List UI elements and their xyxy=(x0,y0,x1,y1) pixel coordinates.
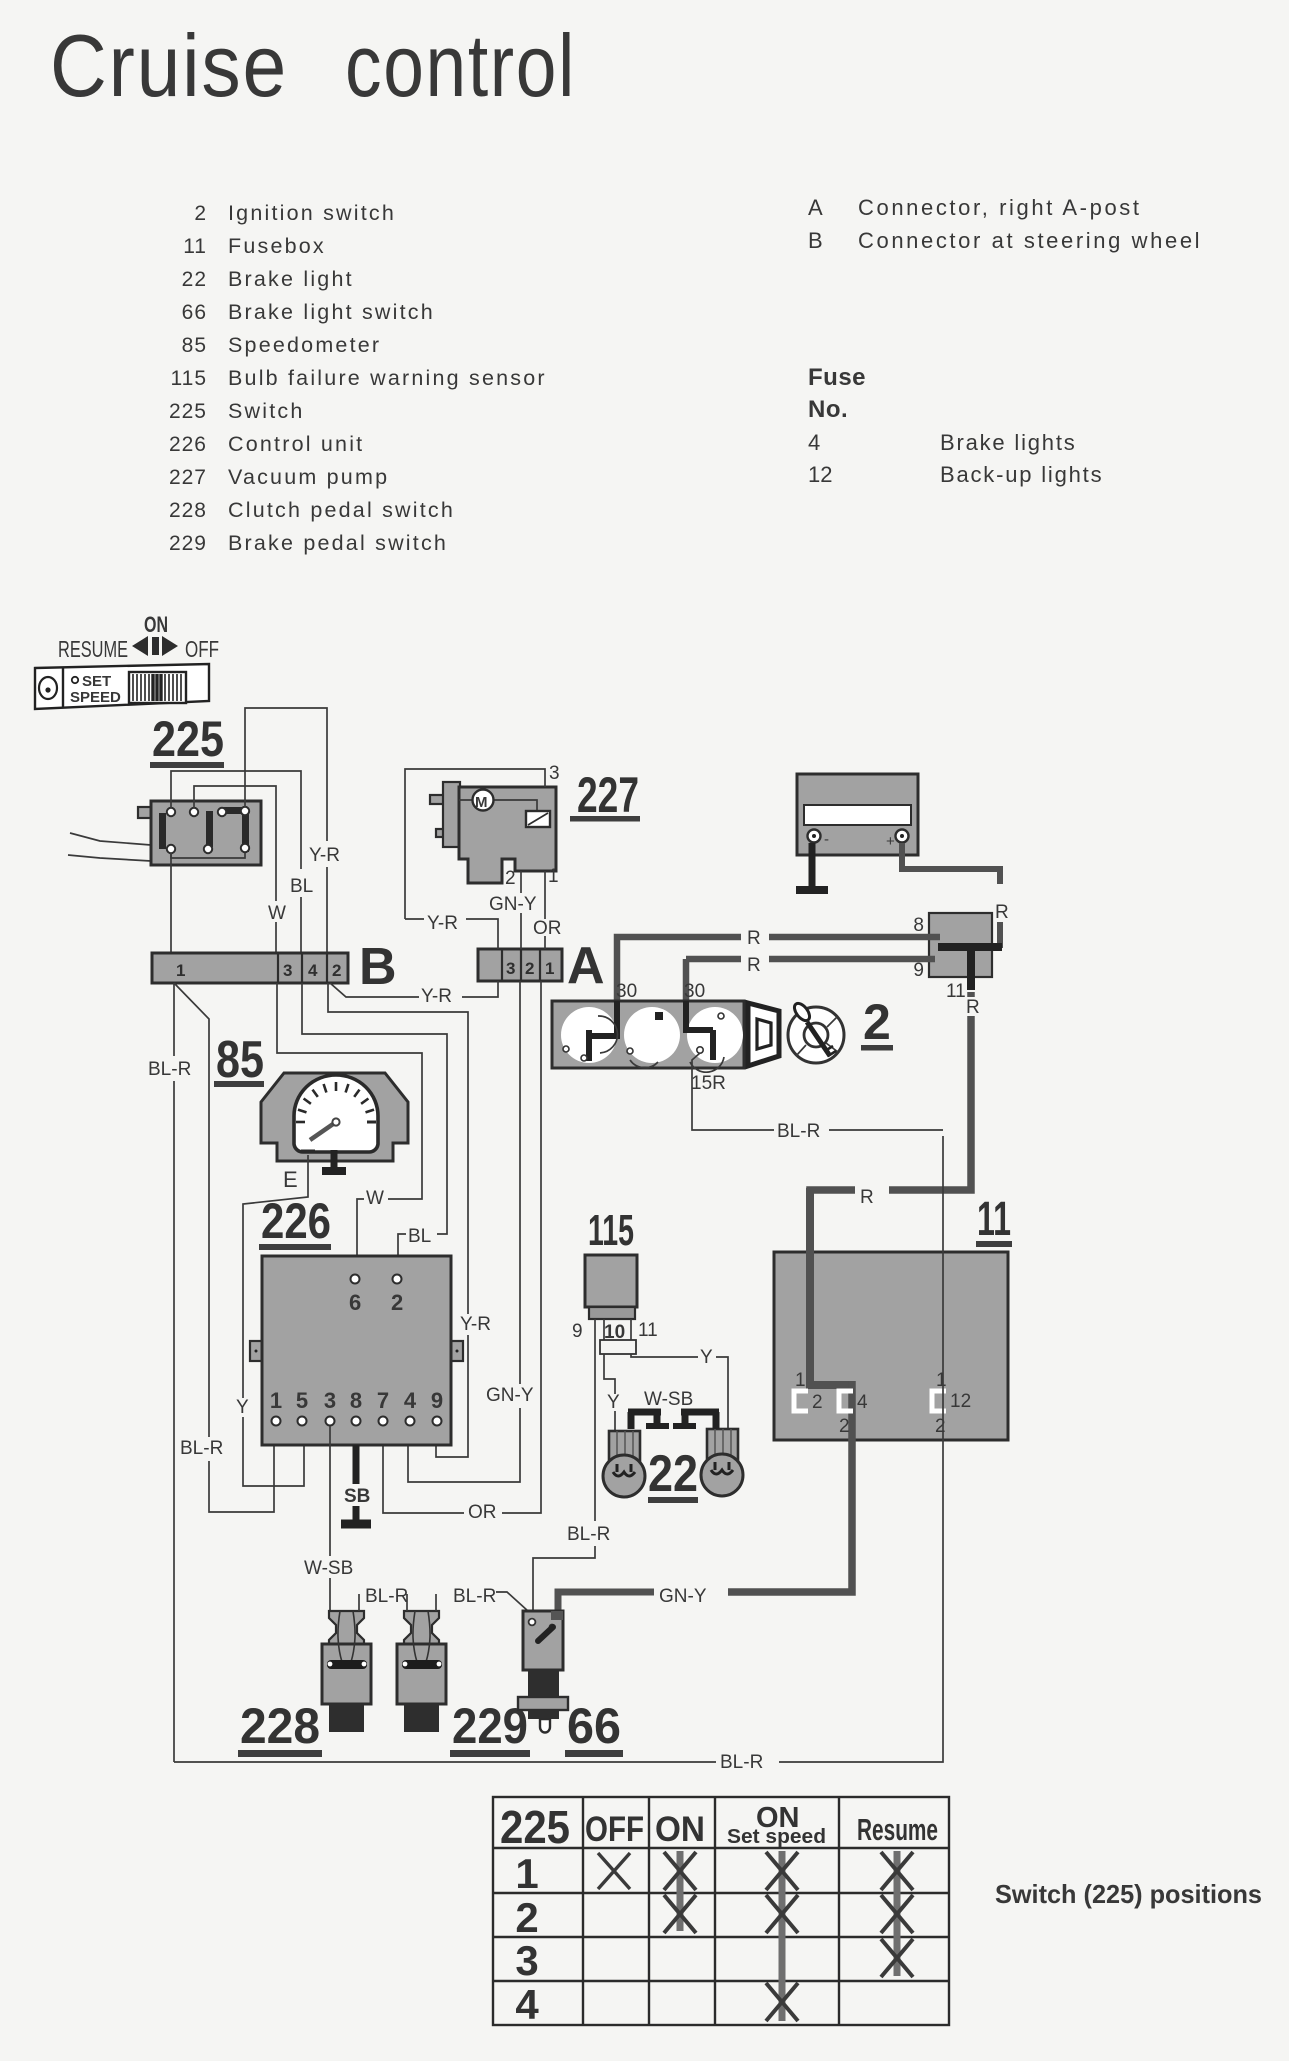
svg-text:BL-R: BL-R xyxy=(365,1586,408,1607)
svg-text:R: R xyxy=(860,1187,874,1208)
svg-text:Y-R: Y-R xyxy=(427,913,458,934)
svg-text:115: 115 xyxy=(171,367,207,390)
svg-text:W: W xyxy=(366,1188,384,1209)
svg-text:3: 3 xyxy=(549,763,560,784)
svg-text:+: + xyxy=(886,833,895,850)
svg-text:Connector at steering wheel: Connector at steering wheel xyxy=(858,228,1202,253)
svg-text:Fuse: Fuse xyxy=(808,364,866,391)
svg-text:12: 12 xyxy=(808,462,832,487)
svg-text:BL-R: BL-R xyxy=(148,1059,191,1080)
svg-text:228: 228 xyxy=(240,1698,320,1754)
svg-text:B: B xyxy=(359,938,397,996)
svg-text:9: 9 xyxy=(431,1388,443,1413)
svg-text:Y: Y xyxy=(700,1347,713,1368)
svg-text:Back-up lights: Back-up lights xyxy=(940,462,1103,487)
svg-text:229: 229 xyxy=(452,1698,528,1754)
svg-text:3: 3 xyxy=(515,1937,538,1984)
svg-text:BL: BL xyxy=(408,1226,431,1247)
svg-text:2: 2 xyxy=(935,1416,946,1437)
svg-text:1: 1 xyxy=(936,1370,947,1391)
svg-text:Cruise: Cruise xyxy=(50,16,288,115)
svg-text:228: 228 xyxy=(169,499,207,522)
svg-text:Y: Y xyxy=(607,1392,620,1413)
svg-text:227: 227 xyxy=(577,767,639,823)
svg-text:GN-Y: GN-Y xyxy=(486,1385,534,1406)
svg-text:ON: ON xyxy=(144,612,168,637)
svg-text:R: R xyxy=(966,997,980,1018)
svg-text:BL-R: BL-R xyxy=(777,1121,820,1142)
svg-text:Set speed: Set speed xyxy=(727,1826,826,1848)
svg-text:229: 229 xyxy=(169,532,207,555)
svg-text:2: 2 xyxy=(332,961,341,980)
svg-text:BL-R: BL-R xyxy=(453,1586,496,1607)
svg-text:115: 115 xyxy=(588,1206,634,1255)
svg-text:GN-Y: GN-Y xyxy=(659,1586,707,1607)
svg-text:Connector, right A-post: Connector, right A-post xyxy=(858,195,1142,220)
svg-text:Brake light: Brake light xyxy=(228,267,354,291)
svg-text:8: 8 xyxy=(350,1388,362,1413)
svg-text:1: 1 xyxy=(795,1370,806,1391)
svg-text:2: 2 xyxy=(194,202,207,225)
svg-text:9: 9 xyxy=(913,960,924,981)
svg-text:1: 1 xyxy=(270,1388,282,1413)
svg-text:30: 30 xyxy=(616,981,637,1002)
svg-text:225: 225 xyxy=(500,1801,570,1853)
svg-text:ON: ON xyxy=(655,1810,705,1849)
svg-text:1: 1 xyxy=(548,866,559,887)
svg-text:3: 3 xyxy=(324,1388,336,1413)
svg-text:Brake pedal switch: Brake pedal switch xyxy=(228,531,448,555)
svg-text:2: 2 xyxy=(863,994,891,1050)
svg-text:2: 2 xyxy=(839,1416,850,1437)
svg-text:2: 2 xyxy=(515,1894,538,1941)
svg-text:BL-R: BL-R xyxy=(720,1752,763,1773)
svg-text:6: 6 xyxy=(349,1290,361,1315)
svg-text:RESUME: RESUME xyxy=(58,636,128,662)
svg-text:OR: OR xyxy=(533,918,562,939)
svg-text:225: 225 xyxy=(169,400,207,423)
svg-text:Brake lights: Brake lights xyxy=(940,430,1077,455)
svg-text:Ignition switch: Ignition switch xyxy=(228,201,396,225)
svg-text:BL-R: BL-R xyxy=(567,1524,610,1545)
svg-text:Y-R: Y-R xyxy=(309,845,340,866)
svg-text:Y-R: Y-R xyxy=(460,1314,491,1335)
svg-text:4: 4 xyxy=(308,961,318,980)
svg-text:-: - xyxy=(824,831,829,848)
svg-text:4: 4 xyxy=(515,1981,539,2028)
svg-text:SET: SET xyxy=(82,673,111,690)
svg-text:Fusebox: Fusebox xyxy=(228,234,326,258)
svg-text:1: 1 xyxy=(176,961,185,980)
svg-text:7: 7 xyxy=(377,1388,389,1413)
svg-text:A: A xyxy=(808,195,823,220)
svg-text:Vacuum pump: Vacuum pump xyxy=(228,465,389,489)
svg-text:22: 22 xyxy=(648,1445,698,1503)
svg-text:11: 11 xyxy=(946,981,966,1002)
svg-text:SB: SB xyxy=(344,1486,370,1507)
svg-text:226: 226 xyxy=(261,1193,331,1249)
svg-text:4: 4 xyxy=(404,1388,417,1413)
svg-text:2: 2 xyxy=(391,1290,403,1315)
svg-text:11: 11 xyxy=(183,235,207,258)
svg-text:B: B xyxy=(808,228,823,253)
svg-text:2: 2 xyxy=(525,959,534,978)
svg-text:OR: OR xyxy=(468,1502,497,1523)
svg-text:3: 3 xyxy=(506,959,515,978)
svg-text:A: A xyxy=(567,937,605,995)
svg-text:Clutch pedal switch: Clutch pedal switch xyxy=(228,498,455,522)
svg-text:2: 2 xyxy=(812,1392,823,1413)
svg-text:9: 9 xyxy=(572,1321,583,1342)
svg-text:4: 4 xyxy=(857,1392,868,1413)
svg-text:Speedometer: Speedometer xyxy=(228,333,381,357)
svg-text:Resume: Resume xyxy=(857,1812,938,1847)
svg-text:BL-R: BL-R xyxy=(180,1438,223,1459)
svg-text:11: 11 xyxy=(638,1320,658,1341)
svg-text:OFF: OFF xyxy=(185,636,219,662)
svg-text:11: 11 xyxy=(977,1193,1011,1246)
svg-text:1: 1 xyxy=(515,1850,538,1897)
svg-text:15R: 15R xyxy=(691,1073,726,1094)
svg-text:12: 12 xyxy=(950,1391,971,1412)
svg-text:2: 2 xyxy=(505,868,516,889)
svg-text:BL: BL xyxy=(290,876,313,897)
svg-text:22: 22 xyxy=(182,268,207,291)
svg-text:30: 30 xyxy=(684,981,705,1002)
svg-text:SPEED: SPEED xyxy=(70,689,121,706)
svg-text:Y-R: Y-R xyxy=(421,986,452,1007)
svg-text:8: 8 xyxy=(913,915,924,936)
svg-text:W: W xyxy=(268,903,286,924)
svg-text:W-SB: W-SB xyxy=(304,1558,353,1579)
svg-text:85: 85 xyxy=(182,334,207,357)
svg-text:No.: No. xyxy=(808,396,848,423)
svg-text:R: R xyxy=(995,902,1009,923)
svg-text:Switch: Switch xyxy=(228,399,305,423)
svg-text:1: 1 xyxy=(545,959,554,978)
svg-text:R: R xyxy=(747,955,761,976)
svg-text:Y: Y xyxy=(236,1397,249,1418)
svg-text:66: 66 xyxy=(182,301,207,324)
svg-text:226: 226 xyxy=(169,433,207,456)
svg-text:225: 225 xyxy=(152,711,224,767)
svg-text:E: E xyxy=(283,1167,298,1192)
svg-text:Brake light switch: Brake light switch xyxy=(228,300,435,324)
svg-text:227: 227 xyxy=(169,466,207,489)
svg-text:W-SB: W-SB xyxy=(644,1389,693,1410)
svg-text:control: control xyxy=(345,16,576,115)
svg-text:Control unit: Control unit xyxy=(228,432,364,456)
svg-text:4: 4 xyxy=(808,430,820,455)
svg-text:R: R xyxy=(747,928,761,949)
svg-text:5: 5 xyxy=(296,1388,308,1413)
svg-text:Switch (225) positions: Switch (225) positions xyxy=(995,1879,1262,1909)
svg-text:66: 66 xyxy=(567,1698,621,1754)
svg-text:M: M xyxy=(475,794,488,811)
svg-text:3: 3 xyxy=(283,961,292,980)
svg-text:OFF: OFF xyxy=(585,1810,644,1849)
svg-text:GN-Y: GN-Y xyxy=(489,894,537,915)
svg-text:85: 85 xyxy=(216,1031,264,1089)
svg-text:Bulb failure warning sensor: Bulb failure warning sensor xyxy=(228,366,547,390)
